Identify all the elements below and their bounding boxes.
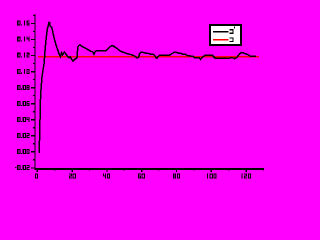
label 120 <box>241 173 242 178</box>
label 0.16 <box>17 21 20 22</box>
legend red line sample <box>213 39 228 41</box>
label 20 <box>69 173 72 174</box>
label 0.10 <box>17 69 20 70</box>
label -0.02 <box>15 167 17 168</box>
label 0.08 <box>17 85 20 86</box>
label 0.14 <box>17 37 20 38</box>
label 40 <box>103 173 104 176</box>
label 0.06 <box>17 101 20 102</box>
legend black line sample <box>213 31 228 33</box>
x major ticks <box>37 168 246 172</box>
x minor ticks <box>55 168 264 170</box>
x axis <box>34 168 263 170</box>
label 0 <box>35 173 38 174</box>
label 100 <box>207 173 208 178</box>
chart canvas <box>0 0 278 196</box>
label 80 <box>173 173 176 174</box>
label 0.12 <box>17 53 20 54</box>
y minor ticks <box>33 15 35 159</box>
y tick labels (pixel digits) <box>15 21 30 171</box>
label 60 <box>138 173 141 174</box>
label 0.02 <box>17 133 20 134</box>
label 0.00 <box>17 149 20 150</box>
label 0.04 <box>17 117 20 118</box>
y axis <box>34 14 36 169</box>
legend box <box>209 24 242 46</box>
red reference line (true value) <box>38 56 259 58</box>
x tick labels (pixel digits) <box>35 173 251 178</box>
legend label 1 (sigma-hat glyph) <box>230 27 235 34</box>
legend label 2 (sigma glyph) <box>230 37 234 42</box>
black estimate curve <box>39 22 256 153</box>
y major ticks <box>31 23 35 168</box>
